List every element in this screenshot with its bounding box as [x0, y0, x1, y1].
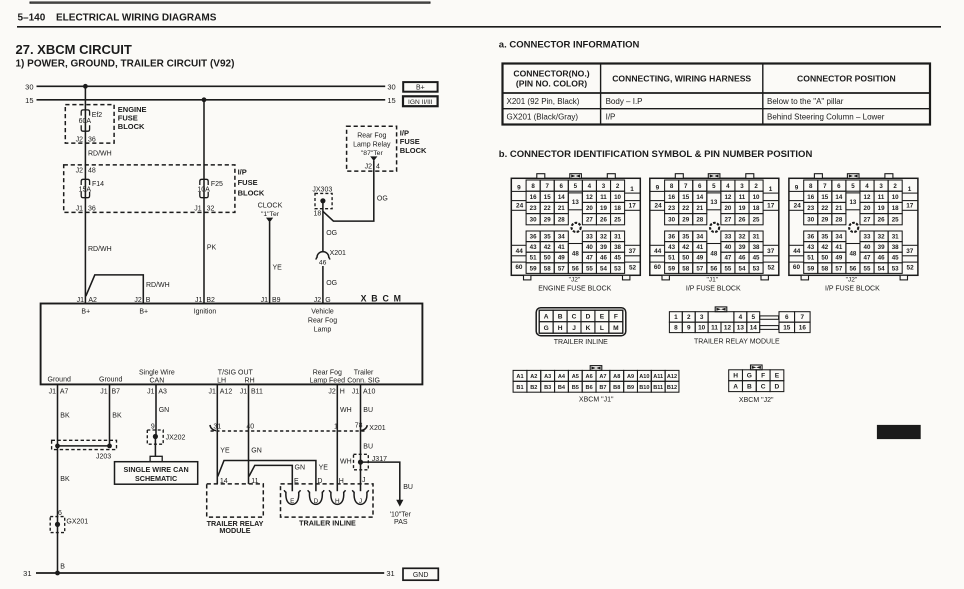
wire bus 15 [25, 96, 396, 105]
svg-text:G: G [747, 372, 752, 379]
svg-text:Ground: Ground [99, 377, 122, 384]
svg-text:L: L [600, 325, 604, 332]
svg-text:B7: B7 [599, 385, 606, 391]
svg-text:CONNECTOR(NO.): CONNECTOR(NO.) [513, 69, 589, 79]
fuse F14 15A [79, 179, 105, 197]
junction J317 (dashed box) [354, 454, 369, 470]
svg-text:BU: BU [403, 484, 413, 491]
wire label GN [159, 407, 170, 414]
svg-text:30: 30 [387, 82, 395, 91]
wire label YE (2) [220, 448, 230, 455]
svg-text:BLOCK: BLOCK [400, 146, 427, 155]
connector pictograph: trailer relay module [669, 307, 810, 346]
svg-text:J1: J1 [49, 388, 57, 395]
pin label J2/4 [365, 164, 380, 171]
svg-text:Conn. SIG: Conn. SIG [347, 378, 380, 385]
svg-text:BK: BK [60, 476, 70, 483]
wire OG from JX303 to X201 pin 46 [322, 201, 324, 253]
svg-text:Rear Fog: Rear Fog [313, 369, 342, 376]
svg-text:RD/WH: RD/WH [88, 246, 112, 253]
svg-text:RD/WH: RD/WH [146, 282, 170, 289]
svg-text:D: D [775, 383, 780, 390]
black marker rectangle [877, 425, 920, 438]
svg-text:B12: B12 [667, 385, 677, 391]
svg-text:E: E [290, 498, 294, 505]
svg-text:F: F [761, 372, 765, 379]
svg-text:Rear Fog: Rear Fog [308, 318, 337, 325]
svg-text:A1: A1 [516, 374, 523, 380]
node junction on bus 30 [83, 84, 88, 89]
connector information table [503, 64, 931, 125]
svg-text:J1: J1 [77, 297, 85, 304]
svg-text:H: H [339, 478, 344, 485]
wire YE branch to trailer inline pin D [218, 461, 316, 492]
pin label 18 [314, 210, 322, 217]
svg-text:I/P: I/P [606, 113, 616, 122]
svg-text:A5: A5 [572, 374, 579, 380]
svg-text:IGN II/III: IGN II/III [408, 99, 433, 106]
svg-text:b. CONNECTOR IDENTIFICATION SY: b. CONNECTOR IDENTIFICATION SYMBOL & PIN… [499, 149, 813, 160]
wire label YE [273, 265, 283, 272]
svg-text:E: E [600, 313, 605, 320]
svg-text:11: 11 [711, 325, 718, 332]
trailer relay module dashed box [207, 484, 264, 517]
wire label BK [60, 413, 70, 420]
J203 label [96, 453, 111, 460]
svg-text:B: B [146, 297, 151, 304]
svg-text:A12: A12 [667, 374, 677, 380]
svg-text:B2: B2 [530, 385, 537, 391]
pin label J2/48 [76, 167, 96, 174]
svg-text:J1: J1 [208, 388, 216, 395]
svg-text:M: M [613, 325, 619, 332]
svg-text:SCHEMATIC: SCHEMATIC [135, 474, 177, 483]
node junction on bus 31 [55, 571, 60, 576]
wire label RD/WH (2) [88, 246, 112, 253]
svg-text:BK: BK [60, 413, 70, 420]
wire OG from X201 to XBCM J2 G [322, 266, 324, 304]
svg-text:TRAILER RELAY MODULE: TRAILER RELAY MODULE [694, 339, 780, 346]
XBCM name label [361, 294, 403, 304]
svg-text:4: 4 [376, 164, 380, 171]
svg-text:J2: J2 [76, 137, 84, 144]
svg-text:D: D [317, 478, 322, 485]
PAS terminal label [390, 512, 412, 527]
connector tab on CAN box [150, 456, 162, 461]
B+ box [403, 82, 437, 92]
svg-text:A9: A9 [627, 374, 634, 380]
svg-text:J2: J2 [134, 297, 142, 304]
wire label BK (2) [60, 476, 70, 483]
svg-text:(PIN NO. COLOR): (PIN NO. COLOR) [516, 79, 587, 89]
svg-text:B: B [60, 563, 65, 570]
fuse F25 10A [197, 179, 223, 197]
svg-text:PK: PK [207, 245, 217, 252]
svg-text:36: 36 [88, 206, 96, 213]
wire label OG [326, 230, 337, 237]
svg-text:J1: J1 [100, 388, 108, 395]
connector pictograph: I/P fuse block "J2" [789, 174, 918, 293]
XBCM module box [41, 304, 423, 385]
svg-text:OG: OG [377, 195, 388, 202]
svg-text:A: A [733, 383, 738, 390]
svg-text:B11: B11 [251, 388, 263, 395]
svg-text:OG: OG [326, 280, 337, 287]
rear fog lamp relay dashed box [347, 126, 397, 171]
svg-text:LH: LH [217, 378, 226, 385]
X201 pin 78 label and arc [355, 422, 368, 430]
svg-text:1) POWER, GROUND, TRAILER CIRC: 1) POWER, GROUND, TRAILER CIRCUIT (V92) [16, 59, 235, 70]
svg-text:J: J [359, 498, 362, 505]
section subtitle [16, 59, 235, 70]
svg-text:Ground: Ground [48, 377, 71, 384]
svg-text:J2: J2 [328, 388, 336, 395]
svg-text:Body – I.P: Body – I.P [606, 97, 643, 106]
wire label RD/WH [88, 151, 112, 158]
arrow to PAS [396, 500, 403, 507]
svg-text:Ef2: Ef2 [92, 112, 103, 119]
svg-text:BLOCK: BLOCK [118, 122, 145, 131]
wire label GN (3) [295, 464, 306, 471]
J317 label [372, 456, 387, 463]
wire to single wire CAN schematic [154, 437, 156, 457]
wire label RD/WH (branch) [146, 282, 170, 289]
svg-text:F14: F14 [92, 181, 104, 188]
svg-text:OG: OG [326, 230, 337, 237]
svg-text:A7: A7 [599, 374, 606, 380]
svg-text:XBCM "J1": XBCM "J1" [579, 397, 614, 404]
svg-text:B: B [747, 383, 752, 390]
svg-text:E: E [775, 372, 780, 379]
section title [16, 42, 132, 57]
svg-text:J: J [572, 325, 576, 332]
X201 pin 1 label [334, 423, 338, 430]
svg-text:A4: A4 [558, 374, 566, 380]
svg-text:C: C [761, 383, 766, 390]
wire label YE (3) [319, 464, 329, 471]
svg-text:WH: WH [340, 407, 352, 414]
svg-text:13: 13 [737, 325, 745, 332]
svg-text:J2: J2 [76, 167, 84, 174]
svg-text:15: 15 [387, 96, 395, 105]
junction J203 (dashed box) [52, 440, 117, 449]
pin label J1/32 [194, 206, 214, 213]
svg-text:CONNECTOR POSITION: CONNECTOR POSITION [797, 74, 896, 84]
XBCM internal bottom labels [48, 369, 380, 384]
wire label BK (3) [112, 413, 122, 420]
svg-text:1: 1 [674, 314, 678, 321]
engine fuse block (dashed box) [65, 105, 114, 144]
svg-text:MODULE: MODULE [219, 526, 250, 535]
svg-text:Rear Fog: Rear Fog [357, 133, 386, 140]
svg-text:A6: A6 [586, 374, 593, 380]
svg-text:J203: J203 [96, 453, 111, 460]
connector X201 crossing (dashed line) [211, 430, 365, 432]
svg-text:78: 78 [355, 422, 363, 429]
svg-text:"J2": "J2" [846, 277, 858, 284]
svg-text:J1: J1 [352, 388, 360, 395]
svg-text:CLOCK: CLOCK [258, 201, 283, 210]
svg-text:E: E [294, 478, 299, 485]
svg-text:T/SIG OUT: T/SIG OUT [218, 369, 254, 376]
svg-text:BK: BK [112, 413, 122, 420]
svg-text:F25: F25 [211, 181, 223, 188]
svg-text:B7: B7 [112, 388, 121, 395]
svg-text:D: D [586, 313, 591, 320]
svg-text:B6: B6 [586, 385, 593, 391]
svg-text:2: 2 [687, 314, 691, 321]
svg-text:Behind Steering Column – Lower: Behind Steering Column – Lower [767, 113, 885, 122]
svg-text:XBCM "J2": XBCM "J2" [739, 397, 774, 404]
svg-text:J2: J2 [365, 164, 373, 171]
wire label BU [363, 407, 373, 414]
pin label 14 [220, 478, 228, 485]
pin label J1/36 [76, 206, 96, 213]
svg-text:A12: A12 [220, 388, 233, 395]
trailer inline cup D [308, 490, 324, 505]
wire label WH [340, 407, 352, 414]
svg-text:H: H [335, 498, 340, 505]
svg-text:18: 18 [314, 210, 322, 217]
trailer inline pin letters above box [294, 477, 366, 485]
svg-text:PAS: PAS [394, 519, 408, 526]
svg-text:A: A [544, 313, 549, 320]
wire YE from XBCM J1 A12 to trailer relay module pin 14 [216, 384, 218, 484]
svg-text:BLOCK: BLOCK [238, 188, 265, 197]
svg-text:H: H [340, 388, 345, 395]
wire label WH (2) [340, 458, 352, 465]
svg-text:J: J [362, 477, 366, 484]
wire BK from XBCM J1 A7 to bus 31 [57, 384, 59, 573]
svg-text:Lamp Feed: Lamp Feed [310, 378, 346, 385]
svg-text:B+: B+ [81, 309, 90, 316]
svg-text:RD/WH: RD/WH [88, 151, 112, 158]
svg-text:31: 31 [23, 569, 31, 578]
wire label OG (relay) [377, 195, 388, 202]
svg-text:Trailer: Trailer [354, 369, 374, 376]
svg-text:ENGINE FUSE BLOCK: ENGINE FUSE BLOCK [538, 285, 611, 292]
wire label BU (2) [363, 443, 373, 450]
svg-text:I/P FUSE BLOCK: I/P FUSE BLOCK [686, 285, 741, 292]
svg-text:BU: BU [363, 443, 373, 450]
svg-text:BU: BU [363, 407, 373, 414]
svg-text:A2: A2 [88, 297, 97, 304]
svg-text:K: K [586, 325, 591, 332]
svg-text:J1: J1 [195, 297, 203, 304]
I/P fuse block label (relay) [400, 128, 427, 155]
svg-text:J1: J1 [194, 206, 202, 213]
svg-text:B3: B3 [544, 385, 551, 391]
wire label PK [207, 245, 217, 252]
J203 junction dots [55, 444, 112, 449]
wire GN from XBCM J1 B11 to trailer relay module pin 11 [248, 384, 250, 484]
JX202 junction dot [153, 434, 158, 439]
svg-text:I/P: I/P [400, 128, 409, 137]
svg-text:8: 8 [674, 325, 678, 332]
svg-text:Lamp Relay: Lamp Relay [353, 141, 391, 148]
arrow from CLOCK [266, 218, 273, 223]
GND box [403, 568, 438, 580]
svg-text:10: 10 [698, 325, 706, 332]
X201 pin 40 label [246, 423, 254, 430]
svg-text:C: C [572, 313, 577, 320]
svg-text:5: 5 [751, 314, 755, 321]
svg-text:X B C M: X B C M [361, 294, 403, 304]
svg-text:ELECTRICAL WIRING DIAGRAMS: ELECTRICAL WIRING DIAGRAMS [56, 13, 217, 24]
trailer inline label [299, 519, 356, 528]
svg-text:15A: 15A [79, 186, 92, 193]
trailer relay module label [207, 519, 264, 535]
svg-text:7: 7 [801, 314, 805, 321]
svg-text:36: 36 [88, 137, 96, 144]
svg-text:B1: B1 [516, 385, 523, 391]
svg-text:SINGLE WIRE CAN: SINGLE WIRE CAN [124, 465, 189, 474]
GX201 junction dot [55, 522, 60, 527]
JX202 label [166, 435, 186, 442]
svg-text:H: H [558, 325, 563, 332]
svg-text:G: G [544, 325, 549, 332]
svg-text:Ignition: Ignition [194, 309, 217, 316]
SINGLE WIRE CAN SCHEMATIC box [115, 462, 198, 485]
svg-text:30: 30 [25, 82, 33, 91]
svg-text:CONNECTING, WIRING HARNESS: CONNECTING, WIRING HARNESS [612, 74, 751, 84]
junction GX201 (dashed box) [50, 517, 64, 533]
arrow from relay 87 terminal [370, 156, 377, 161]
svg-text:GX201 (Black/Gray): GX201 (Black/Gray) [507, 113, 579, 122]
svg-text:46: 46 [319, 259, 327, 266]
header rule [17, 26, 941, 28]
svg-text:YE: YE [273, 265, 283, 272]
wire label BU (3) [403, 484, 413, 491]
svg-text:A10: A10 [639, 374, 649, 380]
svg-text:Single Wire: Single Wire [139, 369, 175, 376]
trailer inline cup H [329, 490, 345, 505]
svg-text:15: 15 [25, 96, 33, 105]
svg-text:JX202: JX202 [166, 435, 186, 442]
J317 junction dot [358, 460, 363, 465]
I/P fuse block (dashed box) [64, 165, 235, 213]
wire WH from XBCM J2 H to trailer inline pin H [336, 384, 338, 491]
svg-text:4: 4 [739, 314, 743, 321]
IGN II/III box [403, 96, 438, 106]
svg-text:J1: J1 [76, 206, 84, 213]
svg-text:X201 (92 Pin, Black): X201 (92 Pin, Black) [507, 97, 580, 106]
I/P fuse block label [238, 168, 265, 198]
svg-text:'10"Ter: '10"Ter [390, 512, 412, 519]
svg-text:FUSE: FUSE [238, 178, 258, 187]
svg-text:JX303: JX303 [312, 186, 332, 193]
X201 label (crossing) [369, 425, 385, 432]
wire GN from XBCM J1 A3 to JX202 [155, 384, 157, 436]
svg-text:YE: YE [319, 464, 329, 471]
XBCM top pin labels [77, 297, 331, 304]
fuse Ef2 60A [79, 110, 103, 131]
JX303 label [312, 186, 332, 193]
svg-text:X201: X201 [369, 425, 385, 432]
svg-text:J1: J1 [261, 297, 269, 304]
svg-text:"J2": "J2" [569, 277, 581, 284]
svg-text:A3: A3 [544, 374, 551, 380]
svg-text:I/P: I/P [238, 168, 247, 177]
svg-text:B10: B10 [639, 385, 649, 391]
svg-text:"J1": "J1" [706, 277, 718, 284]
svg-text:27. XBCM CIRCUIT: 27. XBCM CIRCUIT [16, 42, 132, 57]
pin label 9 [151, 423, 155, 430]
connector pictograph: engine fuse block "J2" [511, 174, 640, 293]
svg-text:"87"Ter: "87"Ter [361, 150, 384, 157]
svg-text:40: 40 [246, 423, 254, 430]
svg-text:B11: B11 [653, 385, 663, 391]
JX303 junction dot [320, 198, 325, 203]
svg-text:A10: A10 [363, 388, 376, 395]
svg-text:H: H [733, 372, 738, 379]
svg-text:GN: GN [295, 464, 306, 471]
wire BK from XBCM J1 B7 to J203 [109, 384, 111, 446]
svg-text:5–140: 5–140 [18, 13, 46, 24]
svg-text:B5: B5 [572, 385, 579, 391]
svg-text:6: 6 [58, 510, 62, 517]
rear fog lamp relay label [353, 133, 391, 157]
svg-text:B9: B9 [627, 385, 634, 391]
wire bus 31 (ground) [23, 569, 395, 578]
node junction on bus 15 [202, 97, 207, 102]
svg-text:15: 15 [783, 325, 791, 332]
svg-text:X201: X201 [330, 250, 346, 257]
svg-text:GN: GN [251, 448, 261, 455]
svg-text:32: 32 [207, 206, 215, 213]
svg-text:B4: B4 [558, 385, 566, 391]
svg-text:CAN: CAN [150, 378, 165, 385]
page header text [18, 13, 217, 24]
svg-text:Lamp: Lamp [314, 326, 332, 333]
trailer inline cup J [352, 490, 368, 505]
svg-text:6: 6 [785, 314, 789, 321]
svg-text:FUSE: FUSE [400, 137, 420, 146]
engine fuse block label [118, 105, 147, 131]
svg-text:Below to the "A" pillar: Below to the "A" pillar [767, 97, 844, 106]
junction JX303 (dashed box) [315, 193, 332, 208]
connector pictograph: trailer inline [536, 308, 626, 346]
svg-text:WH: WH [340, 458, 352, 465]
wire label GN (2) [251, 448, 261, 455]
svg-text:A3: A3 [158, 388, 167, 395]
junction JX202 (dashed box) [147, 430, 163, 444]
wire PK from bus 15 through F25 to XBCM J1 B2 [203, 100, 205, 304]
connector pictograph: XBCM "J1" [513, 366, 679, 404]
svg-text:"1"Ter: "1"Ter [261, 211, 280, 218]
svg-text:12: 12 [724, 325, 732, 332]
svg-text:D: D [314, 498, 319, 505]
svg-text:B+: B+ [139, 309, 148, 316]
svg-text:A8: A8 [613, 374, 620, 380]
svg-text:B: B [558, 313, 563, 320]
svg-text:A11: A11 [653, 374, 663, 380]
svg-text:GX201: GX201 [66, 519, 88, 526]
svg-text:B9: B9 [272, 297, 281, 304]
trailer inline cup E [284, 490, 300, 505]
svg-text:B+: B+ [416, 84, 425, 91]
svg-text:3: 3 [700, 314, 704, 321]
svg-text:J1: J1 [147, 388, 155, 395]
svg-text:Vehicle: Vehicle [311, 309, 334, 316]
wire BU branch to PAS [361, 462, 400, 500]
GX201 label [66, 519, 88, 526]
svg-text:F: F [614, 313, 618, 320]
svg-text:14: 14 [750, 325, 758, 332]
svg-text:J2: J2 [314, 297, 322, 304]
connector X201 pin 46 (arc symbol) [316, 250, 346, 266]
wire label OG (2) [326, 280, 337, 287]
